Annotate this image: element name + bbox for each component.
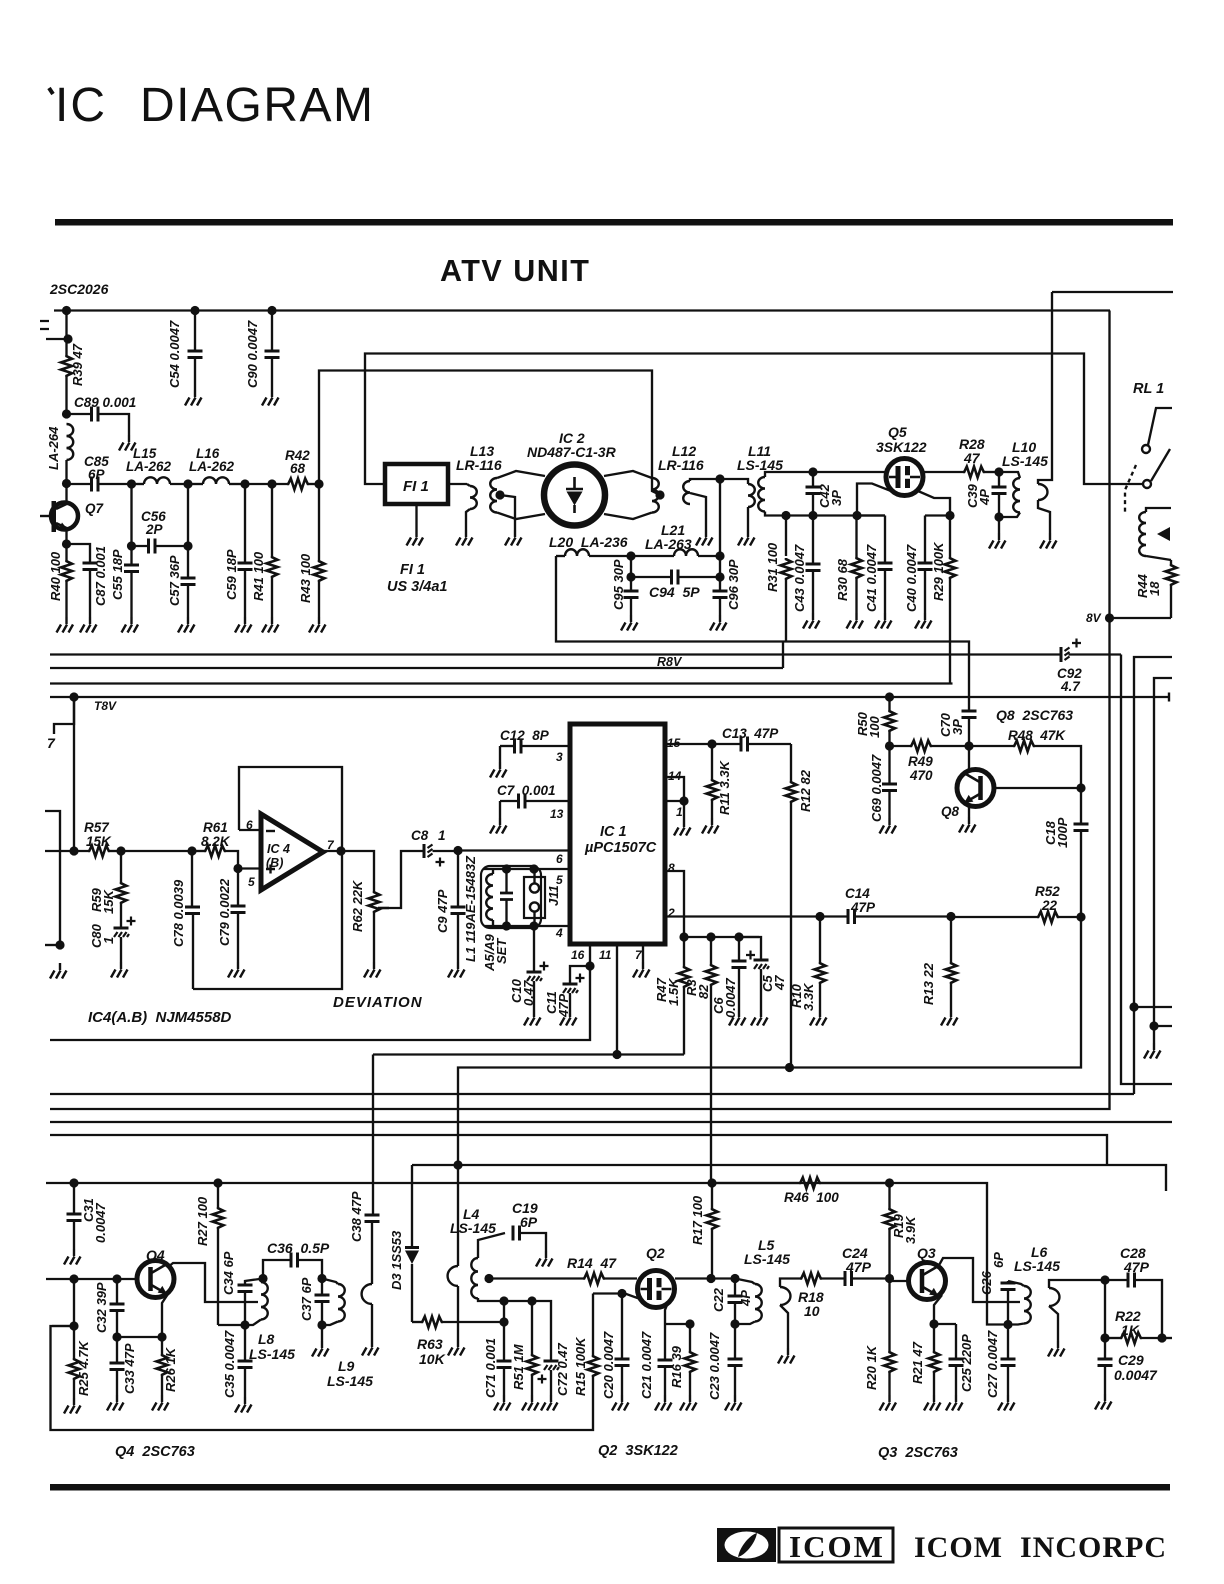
ground L11 <box>738 530 755 546</box>
wire R44 to 8V rail <box>1110 617 1172 619</box>
wire R47 rail <box>684 936 759 938</box>
svg-text:C20 0.0047: C20 0.0047 <box>601 1331 616 1399</box>
node R17 bottom <box>706 1274 715 1283</box>
wire C96 branch <box>719 556 721 577</box>
svg-text:8V: 8V <box>1086 611 1102 625</box>
svg-text:C40 0.0047: C40 0.0047 <box>904 544 919 612</box>
svg-text:Q4: Q4 <box>146 1247 165 1263</box>
node C32 top <box>112 1274 121 1283</box>
svg-text:US 3/4a1: US 3/4a1 <box>387 579 447 595</box>
wire R14 line from L4 tap <box>489 1277 583 1279</box>
node R13 top <box>946 912 955 921</box>
svg-text:IC 1: IC 1 <box>600 824 627 840</box>
svg-text:47P: 47P <box>845 1259 872 1275</box>
svg-text:2P: 2P <box>145 522 164 537</box>
wire source node to C40 <box>925 514 950 516</box>
capacitor C18 100P <box>1080 788 1082 824</box>
transformer L13 secondary <box>490 478 497 513</box>
wire base to Q3 <box>890 1280 910 1282</box>
bus line 3 <box>50 682 953 684</box>
svg-text:47: 47 <box>772 975 787 991</box>
ground C5 <box>751 1010 768 1026</box>
inductor L10 secondary <box>1038 484 1047 500</box>
wire output to R62 <box>341 851 374 891</box>
svg-text:C9 47P: C9 47P <box>435 889 450 933</box>
capacitor C27 0.0047 <box>1007 1325 1009 1360</box>
svg-text:5: 5 <box>556 873 563 887</box>
svg-text:C7 0.001: C7 0.001 <box>497 783 556 798</box>
ground C57 <box>178 617 195 633</box>
op-amp IC4(B) triangle <box>261 814 323 890</box>
wire L9 bottom ground <box>321 1325 323 1341</box>
svg-text:C95 30P: C95 30P <box>611 559 626 610</box>
svg-text:D3 1SS53: D3 1SS53 <box>389 1230 404 1290</box>
inductor L10 LS-145 primary <box>999 472 1020 478</box>
wire L11 primary to ground <box>747 507 749 530</box>
capacitor C38 47P <box>365 1215 380 1222</box>
resistor R22 1K <box>1105 1337 1120 1339</box>
transformer L5 secondary <box>780 1287 790 1305</box>
wire pin15 to C13 <box>665 743 712 745</box>
transistor Q3 2SC763 <box>909 1263 946 1300</box>
resistor R43 100 <box>318 484 320 560</box>
ground C35 <box>235 1397 252 1413</box>
wire output stub <box>1162 1337 1172 1339</box>
svg-text:C27 0.0047: C27 0.0047 <box>985 1330 1000 1398</box>
capacitor C85 6P <box>67 483 92 485</box>
transformer L12 secondary <box>683 481 690 504</box>
title text SCHEMATIC DIAGRAM (cropped) <box>49 88 53 94</box>
relay arm <box>1151 449 1170 481</box>
capacitor C78 0.0039 in loop <box>191 851 193 907</box>
ground C6 <box>729 1010 746 1026</box>
svg-text:C71 0.001: C71 0.001 <box>483 1338 498 1398</box>
svg-text:L8: L8 <box>258 1331 275 1347</box>
ground C80 <box>111 962 128 978</box>
resistor R48 47K <box>969 745 1013 747</box>
capacitor C57 36P <box>187 546 189 578</box>
ground pin7 <box>633 962 650 978</box>
svg-text:C33 47P: C33 47P <box>122 1343 137 1394</box>
filter FI1 box <box>385 464 448 504</box>
capacitor C79 0.0022 <box>237 869 239 907</box>
node L6 bottom <box>1003 1320 1012 1329</box>
svg-text:C72 0.47: C72 0.47 <box>555 1342 570 1396</box>
svg-text:3P: 3P <box>950 719 965 735</box>
svg-text:10: 10 <box>804 1303 820 1319</box>
svg-text:LS-145: LS-145 <box>1014 1258 1060 1274</box>
ground left branch <box>50 963 67 979</box>
svg-text:R62 22K: R62 22K <box>350 879 365 932</box>
svg-text:R20 1K: R20 1K <box>864 1344 879 1390</box>
transformer L6 secondary <box>1049 1288 1059 1306</box>
resistor R18 10 <box>800 1273 822 1284</box>
top border rule <box>55 219 1173 226</box>
node C39 <box>994 467 1003 476</box>
ground L9 secondary <box>362 1340 379 1356</box>
svg-text:0.0047: 0.0047 <box>93 1202 108 1243</box>
ground C31 <box>64 1249 81 1265</box>
ICOM logo text box <box>779 1528 893 1562</box>
wire pin6 line <box>458 849 570 851</box>
svg-text:15K: 15K <box>86 834 112 849</box>
resistor R16 39 <box>689 1324 691 1351</box>
node C78 top <box>187 846 196 855</box>
node C6 top <box>734 932 743 941</box>
capacitor C40 0.0047 <box>924 516 926 564</box>
capacitor C69 0.0047 <box>888 746 890 784</box>
node R11 top <box>707 739 716 748</box>
ground C89 <box>119 435 136 451</box>
wire relay common <box>1148 408 1172 445</box>
svg-text:4.7: 4.7 <box>1060 679 1081 694</box>
transformer L13 LR-116 primary <box>467 484 470 486</box>
ground C33 <box>107 1395 124 1411</box>
svg-text:Q8 2SC763: Q8 2SC763 <box>996 707 1073 723</box>
svg-text:82: 82 <box>696 984 711 999</box>
svg-text:1: 1 <box>676 805 683 819</box>
wire pin8 down <box>665 871 684 937</box>
transformer L12 LR-116 primary <box>652 478 659 513</box>
ground R20 <box>880 1395 897 1411</box>
svg-text:R57: R57 <box>84 820 110 835</box>
svg-text:68: 68 <box>290 461 306 476</box>
wire T8V to R57 line <box>73 697 75 851</box>
resistor R46 100 <box>712 1182 799 1184</box>
svg-text:10K: 10K <box>419 1351 446 1367</box>
svg-text:C34 6P: C34 6P <box>221 1251 236 1295</box>
svg-text:C21 0.0047: C21 0.0047 <box>639 1331 654 1399</box>
ground L13 tap <box>505 530 522 546</box>
wire C36 loop <box>263 1260 291 1279</box>
transformer L9 secondary <box>362 1284 372 1304</box>
svg-text:C32 39P: C32 39P <box>94 1282 109 1333</box>
svg-text:Q7: Q7 <box>85 501 105 516</box>
svg-text:R31 100: R31 100 <box>765 542 780 592</box>
svg-text:LS-145: LS-145 <box>450 1220 496 1236</box>
svg-text:Q4 2SC763: Q4 2SC763 <box>115 1444 195 1460</box>
resistor R15 100K in return loop <box>592 1294 594 1356</box>
ground L9 <box>312 1341 329 1357</box>
ground C90 <box>262 390 279 406</box>
capacitor C43 0.0047 <box>812 516 814 565</box>
svg-text:R40 100: R40 100 <box>48 551 63 601</box>
wire top rail 8V <box>54 309 1110 311</box>
capacitor C11 47P electrolytic <box>570 966 590 984</box>
wire main vertical 1109 rail <box>50 311 1110 1110</box>
svg-text:ICOM INCORPC: ICOM INCORPC <box>914 1531 1167 1564</box>
svg-text:Q2 3SK122: Q2 3SK122 <box>598 1443 678 1459</box>
svg-text:R26 1K: R26 1K <box>163 1346 178 1392</box>
capacitor C41 0.0047 <box>884 516 886 564</box>
svg-text:4P: 4P <box>977 489 992 506</box>
svg-text:SET: SET <box>494 938 509 964</box>
svg-text:3P: 3P <box>829 490 844 506</box>
ground C95 <box>621 615 638 631</box>
transistor Q2 3SK122 <box>638 1271 675 1308</box>
diode D3 1SS53 <box>411 1165 413 1247</box>
svg-text:LS-145: LS-145 <box>1002 453 1048 469</box>
svg-text:7: 7 <box>47 735 56 751</box>
wire C92 rail down right side <box>1121 655 1172 1085</box>
capacitor C10 0.47 electrolytic <box>533 926 535 972</box>
svg-text:R63: R63 <box>417 1336 443 1352</box>
capacitor C39 4P <box>998 472 1000 487</box>
wire source node rail <box>665 1323 690 1325</box>
capacitor C8 1 electrolytic <box>423 844 426 858</box>
wire L11 secondary bottom rail <box>765 512 885 516</box>
svg-text:47: 47 <box>963 450 981 466</box>
svg-text:R15 100K: R15 100K <box>573 1336 588 1396</box>
resistor R25 4.7K <box>73 1279 75 1326</box>
svg-text:LS-145: LS-145 <box>249 1346 295 1362</box>
svg-text:C23 0.0047: C23 0.0047 <box>707 1332 722 1400</box>
wire audio line to C38 drop <box>373 1053 684 1055</box>
node lower loop D3 <box>453 1160 462 1169</box>
svg-text:4P: 4P <box>738 1290 753 1307</box>
svg-text:Q2: Q2 <box>646 1245 665 1261</box>
ground right rail <box>1144 1043 1161 1059</box>
svg-text:C69 0.0047: C69 0.0047 <box>869 754 884 822</box>
svg-text:L20 LA-236: L20 LA-236 <box>549 534 628 550</box>
svg-text:C8: C8 <box>411 828 429 843</box>
svg-text:4: 4 <box>555 926 563 940</box>
svg-text:47P: 47P <box>1123 1259 1150 1275</box>
svg-text:LA-263: LA-263 <box>645 536 692 552</box>
ground L5 secondary <box>778 1348 795 1364</box>
svg-text:RL 1: RL 1 <box>1133 381 1164 397</box>
capacitor C22 4P <box>728 1296 743 1303</box>
resistor R13 22 <box>950 917 952 963</box>
wire C71 to R63 node <box>503 1301 505 1322</box>
wire tank bottom rail to C70 <box>556 556 969 711</box>
svg-text:C79 0.0022: C79 0.0022 <box>217 878 232 946</box>
wire stub to cropped transistor <box>46 338 68 340</box>
svg-text:R29 100K: R29 100K <box>931 541 946 601</box>
svg-text:8: 8 <box>668 861 675 875</box>
wire emitter to C87 <box>67 544 91 563</box>
node L20-L21 <box>626 551 635 560</box>
svg-text:R11 3.3K: R11 3.3K <box>717 759 732 815</box>
svg-text:C25 220P: C25 220P <box>959 1334 974 1392</box>
resistor R3 82 <box>710 937 712 964</box>
wire branch to edge <box>1134 1006 1172 1008</box>
svg-text:C29: C29 <box>1118 1352 1144 1368</box>
wire R25 mystery line <box>52 1325 74 1327</box>
wire L11 feed down to L21 <box>719 479 721 556</box>
svg-text:C90 0.0047: C90 0.0047 <box>245 320 260 388</box>
capacitor C92 4.7 electrolytic <box>1060 647 1063 662</box>
svg-text:6P: 6P <box>991 1252 1006 1268</box>
wire Q2 drain to L5 <box>675 1277 735 1279</box>
svg-text:LS-145: LS-145 <box>327 1373 373 1389</box>
svg-text:FI 1: FI 1 <box>403 478 429 495</box>
svg-text:C87 0.001: C87 0.001 <box>93 546 108 606</box>
node R25 tap <box>69 1274 78 1283</box>
node R57 left <box>69 846 78 855</box>
node L9 top <box>317 1274 326 1283</box>
transistor Q4 2SC763 <box>137 1261 174 1298</box>
node top rail junction <box>62 306 71 315</box>
transformer L6 LS-145 rail <box>1007 1281 1009 1283</box>
node R25 junction <box>69 1321 78 1330</box>
svg-text:R52: R52 <box>1035 884 1060 899</box>
ground C23 <box>725 1395 742 1411</box>
svg-text:16: 16 <box>571 948 585 962</box>
ground C96 <box>710 615 727 631</box>
ground R62 <box>364 962 381 978</box>
ground FI1 <box>415 504 417 530</box>
node C31 top <box>69 1178 78 1187</box>
ground C9 <box>448 962 465 978</box>
bus line R8V <box>50 667 783 669</box>
wire Q2 source <box>665 1300 669 1324</box>
transformer L11 LS-145 primary <box>748 484 755 507</box>
resistor R31 100 <box>785 516 787 557</box>
wire R57 input line <box>45 850 88 852</box>
ground L13 primary <box>456 530 473 546</box>
svg-text:R21 47: R21 47 <box>910 1341 925 1384</box>
node L9 bottom <box>317 1320 326 1329</box>
wire pin11 to audio line <box>616 944 618 1055</box>
svg-text:1.5K: 1.5K <box>666 977 681 1006</box>
svg-text:13: 13 <box>550 807 564 821</box>
capacitor C13 47P <box>712 743 741 745</box>
node R52 right <box>1076 912 1085 921</box>
wire Q5 drain to R28 <box>923 471 963 473</box>
ground C69 <box>880 818 897 834</box>
capacitor C35 0.0047 <box>244 1325 246 1361</box>
ground C79 <box>228 962 245 978</box>
node L11 top feed <box>715 474 724 483</box>
node R63 right <box>499 1317 508 1326</box>
svg-text:C94 5P: C94 5P <box>649 584 700 600</box>
wire FI1 to L13 <box>448 483 467 485</box>
resistor R29 100K <box>949 516 951 558</box>
transformer L9 winding <box>322 1279 338 1285</box>
svg-text:ICOM: ICOM <box>789 1529 885 1564</box>
inductor L16 LA-262 <box>188 483 203 485</box>
ground C11 <box>560 1010 577 1026</box>
node L5 top <box>730 1274 739 1283</box>
svg-text:3: 3 <box>556 750 563 764</box>
svg-text:IC4(A.B) NJM4558D: IC4(A.B) NJM4558D <box>88 1009 232 1026</box>
node L5 bottom <box>730 1319 739 1328</box>
wire Q4 base line <box>46 1278 137 1280</box>
ic IC1 uPC1507C box <box>570 724 665 944</box>
svg-text:C12 8P: C12 8P <box>500 728 550 743</box>
capacitor C14 47P <box>820 915 848 917</box>
transistor Q5 3SK122 <box>886 459 923 496</box>
resistor R39 47 <box>61 355 72 377</box>
node R42 right <box>314 479 323 488</box>
node Q7 collector <box>62 479 71 488</box>
capacitor C32 39P <box>116 1279 118 1304</box>
svg-text:LS-145: LS-145 <box>744 1251 790 1267</box>
node R22 right output <box>1157 1333 1166 1342</box>
connector J11 <box>524 877 545 918</box>
resistor R12 82 <box>790 744 792 781</box>
resistor R14 47 <box>583 1273 605 1284</box>
capacitor C36 0.5P <box>291 1253 298 1268</box>
wire R8V riser <box>782 642 784 669</box>
node R12 bottom <box>785 1063 794 1072</box>
svg-text:LR-116: LR-116 <box>456 457 502 473</box>
capacitor C59 18P <box>244 484 246 563</box>
svg-text:1: 1 <box>438 828 446 843</box>
svg-text:C54 0.0047: C54 0.0047 <box>167 320 182 388</box>
wire lower loop top <box>412 1165 1166 1191</box>
transformer L4 secondary <box>471 1258 478 1299</box>
node C9 top <box>453 846 462 855</box>
wire coil to Q7 node <box>65 460 67 484</box>
wire L4 secondary bottom rail <box>478 1298 551 1360</box>
svg-text:3.3K: 3.3K <box>801 982 816 1011</box>
capacitor C28 47P <box>1105 1279 1128 1281</box>
resistor R20 1K <box>888 1279 890 1352</box>
svg-text:1: 1 <box>101 937 116 944</box>
tuning coil L1 119AE-15483Z <box>481 866 541 928</box>
wire Q5 source <box>918 491 950 516</box>
capacitor C87 0.001 <box>83 563 98 570</box>
resistor R21 47 <box>933 1324 935 1351</box>
svg-text:FI 1: FI 1 <box>400 562 425 578</box>
svg-text:470: 470 <box>909 768 933 783</box>
svg-text:R49: R49 <box>908 754 933 769</box>
resistor R10 3.3K <box>819 917 821 963</box>
ground R30 <box>847 613 864 629</box>
capacitor C31 0.0047 <box>73 1183 75 1214</box>
ground C54 <box>185 390 202 406</box>
node L8 top <box>258 1274 267 1283</box>
ground L12 <box>696 530 713 546</box>
resistor R11 3.3K <box>711 744 713 779</box>
wire gate2 node to C41 <box>857 514 885 516</box>
ground L10 secondary <box>1040 533 1057 549</box>
svg-text:8.2K: 8.2K <box>201 834 231 849</box>
wire L12 to L11 top <box>690 479 748 484</box>
svg-text:DIAGRAM: DIAGRAM <box>140 79 375 132</box>
relay coil <box>1139 512 1146 556</box>
svg-text:1K: 1K <box>1121 1322 1140 1338</box>
svg-text:ND487-C1-3R: ND487-C1-3R <box>527 444 617 460</box>
capacitor C6 0.0047 <box>738 937 740 961</box>
wire L13 to IC2 <box>497 471 545 478</box>
ground R21 <box>924 1395 941 1411</box>
wire IC1 pin2 line <box>665 915 820 917</box>
svg-text:22: 22 <box>1041 898 1058 913</box>
wire Q3 collector to L6 <box>938 1258 1020 1302</box>
node R10 top <box>815 912 824 921</box>
node Q7 emitter <box>62 539 71 548</box>
bottom border rule <box>50 1484 1170 1491</box>
svg-text:3SK122: 3SK122 <box>876 439 927 455</box>
bus line lower 1 <box>50 1093 1134 1095</box>
wire emitter node rail <box>117 1336 162 1338</box>
capacitor C33 47P <box>116 1337 118 1363</box>
bus line T8V <box>50 696 1169 698</box>
ground R16 <box>680 1395 697 1411</box>
resistor R42 68 <box>287 479 309 490</box>
svg-text:R12 82: R12 82 <box>798 769 813 812</box>
svg-text:C35 0.0047: C35 0.0047 <box>222 1330 237 1398</box>
capacitor C80 1 electrolytic <box>114 927 129 930</box>
capacitor C24 47P <box>845 1271 852 1286</box>
ground C20 <box>612 1395 629 1411</box>
resistor R49 470 <box>890 745 911 747</box>
wire top right antenna rail <box>1052 291 1173 293</box>
capacitor C37 6P <box>321 1279 323 1296</box>
